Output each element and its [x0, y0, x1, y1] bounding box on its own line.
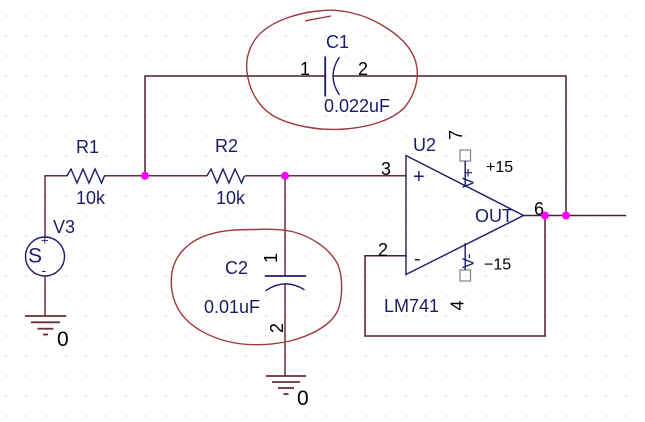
svg-text:+15: +15: [486, 159, 513, 176]
svg-text:0.01uF: 0.01uF: [204, 297, 260, 317]
resistor R1: [67, 169, 105, 183]
svg-text:2: 2: [267, 323, 287, 333]
svg-text:6: 6: [534, 199, 544, 219]
label 0: [297, 387, 309, 410]
svg-text:V3: V3: [53, 217, 75, 237]
label V3: [53, 217, 75, 237]
label LM741: [384, 296, 439, 316]
wire: [45, 176, 68, 237]
pin 6: [534, 199, 544, 219]
pin 2: [378, 240, 388, 260]
label C2: [225, 258, 248, 278]
svg-text:3: 3: [381, 159, 391, 179]
annotation circle around C1: [247, 10, 418, 129]
svg-text:0: 0: [57, 328, 69, 351]
label -15: [484, 257, 511, 274]
ground: [266, 376, 306, 394]
node junction: [141, 172, 149, 180]
pin 2: [267, 323, 287, 333]
svg-text:U2: U2: [413, 135, 436, 155]
svg-text:1: 1: [300, 59, 310, 79]
annotation circle around C2: [171, 229, 341, 345]
svg-text:0: 0: [297, 387, 309, 410]
voltage source V3: [26, 233, 65, 279]
capacitor C1: [325, 57, 339, 97]
svg-text:C1: C1: [326, 32, 349, 52]
pin 7: [446, 130, 466, 140]
value 10k: [76, 188, 106, 208]
wire: [145, 175, 207, 177]
wire: [334, 76, 567, 216]
svg-text:S: S: [28, 245, 42, 268]
svg-text:C2: C2: [225, 258, 248, 278]
value 0.01uF: [204, 297, 260, 317]
wire: [285, 175, 406, 177]
label R1: [76, 137, 99, 157]
pin 1: [261, 253, 281, 263]
wire: [524, 215, 627, 217]
node junction: [281, 172, 289, 180]
power pin V+: [460, 150, 478, 188]
wire: [44, 276, 46, 316]
ground: [25, 316, 66, 335]
node junction: [541, 212, 549, 220]
svg-text:1: 1: [261, 253, 281, 263]
power pin V-: [460, 243, 478, 281]
wire: [245, 175, 285, 177]
svg-text:7: 7: [446, 130, 466, 140]
pin 2: [358, 59, 368, 79]
label U2: [413, 135, 436, 155]
value 0.022uF: [324, 96, 390, 116]
svg-text:OUT: OUT: [475, 206, 513, 226]
svg-text:V+: V+: [461, 168, 478, 188]
op-amp U2: [406, 156, 524, 275]
svg-text:R2: R2: [215, 136, 238, 156]
wire: [145, 76, 325, 176]
wire: [365, 216, 545, 337]
label +15: [486, 159, 513, 176]
wire: [284, 284, 286, 376]
label C1: [326, 32, 349, 52]
svg-text:R1: R1: [76, 137, 99, 157]
wire: [284, 176, 286, 276]
node junction: [562, 212, 570, 220]
svg-text:2: 2: [358, 59, 368, 79]
svg-text:-: -: [414, 248, 421, 270]
svg-text:2: 2: [378, 240, 388, 260]
svg-text:4: 4: [448, 300, 468, 310]
svg-text:−15: −15: [484, 257, 511, 274]
value 10k: [216, 188, 246, 208]
label 0: [57, 328, 69, 351]
svg-text:+: +: [413, 166, 425, 188]
svg-text:10k: 10k: [216, 188, 246, 208]
resistor R2: [207, 169, 245, 183]
svg-text:V-: V-: [461, 253, 478, 268]
capacitor C2: [265, 276, 306, 291]
wire: [104, 175, 145, 177]
svg-text:10k: 10k: [76, 188, 106, 208]
pin 4: [448, 300, 468, 310]
pin 3: [381, 159, 391, 179]
svg-text:LM741: LM741: [384, 296, 439, 316]
svg-text:0.022uF: 0.022uF: [324, 96, 390, 116]
svg-text:+: +: [41, 233, 49, 248]
pin 1: [300, 59, 310, 79]
svg-text:-: -: [42, 262, 47, 278]
label R2: [215, 136, 238, 156]
